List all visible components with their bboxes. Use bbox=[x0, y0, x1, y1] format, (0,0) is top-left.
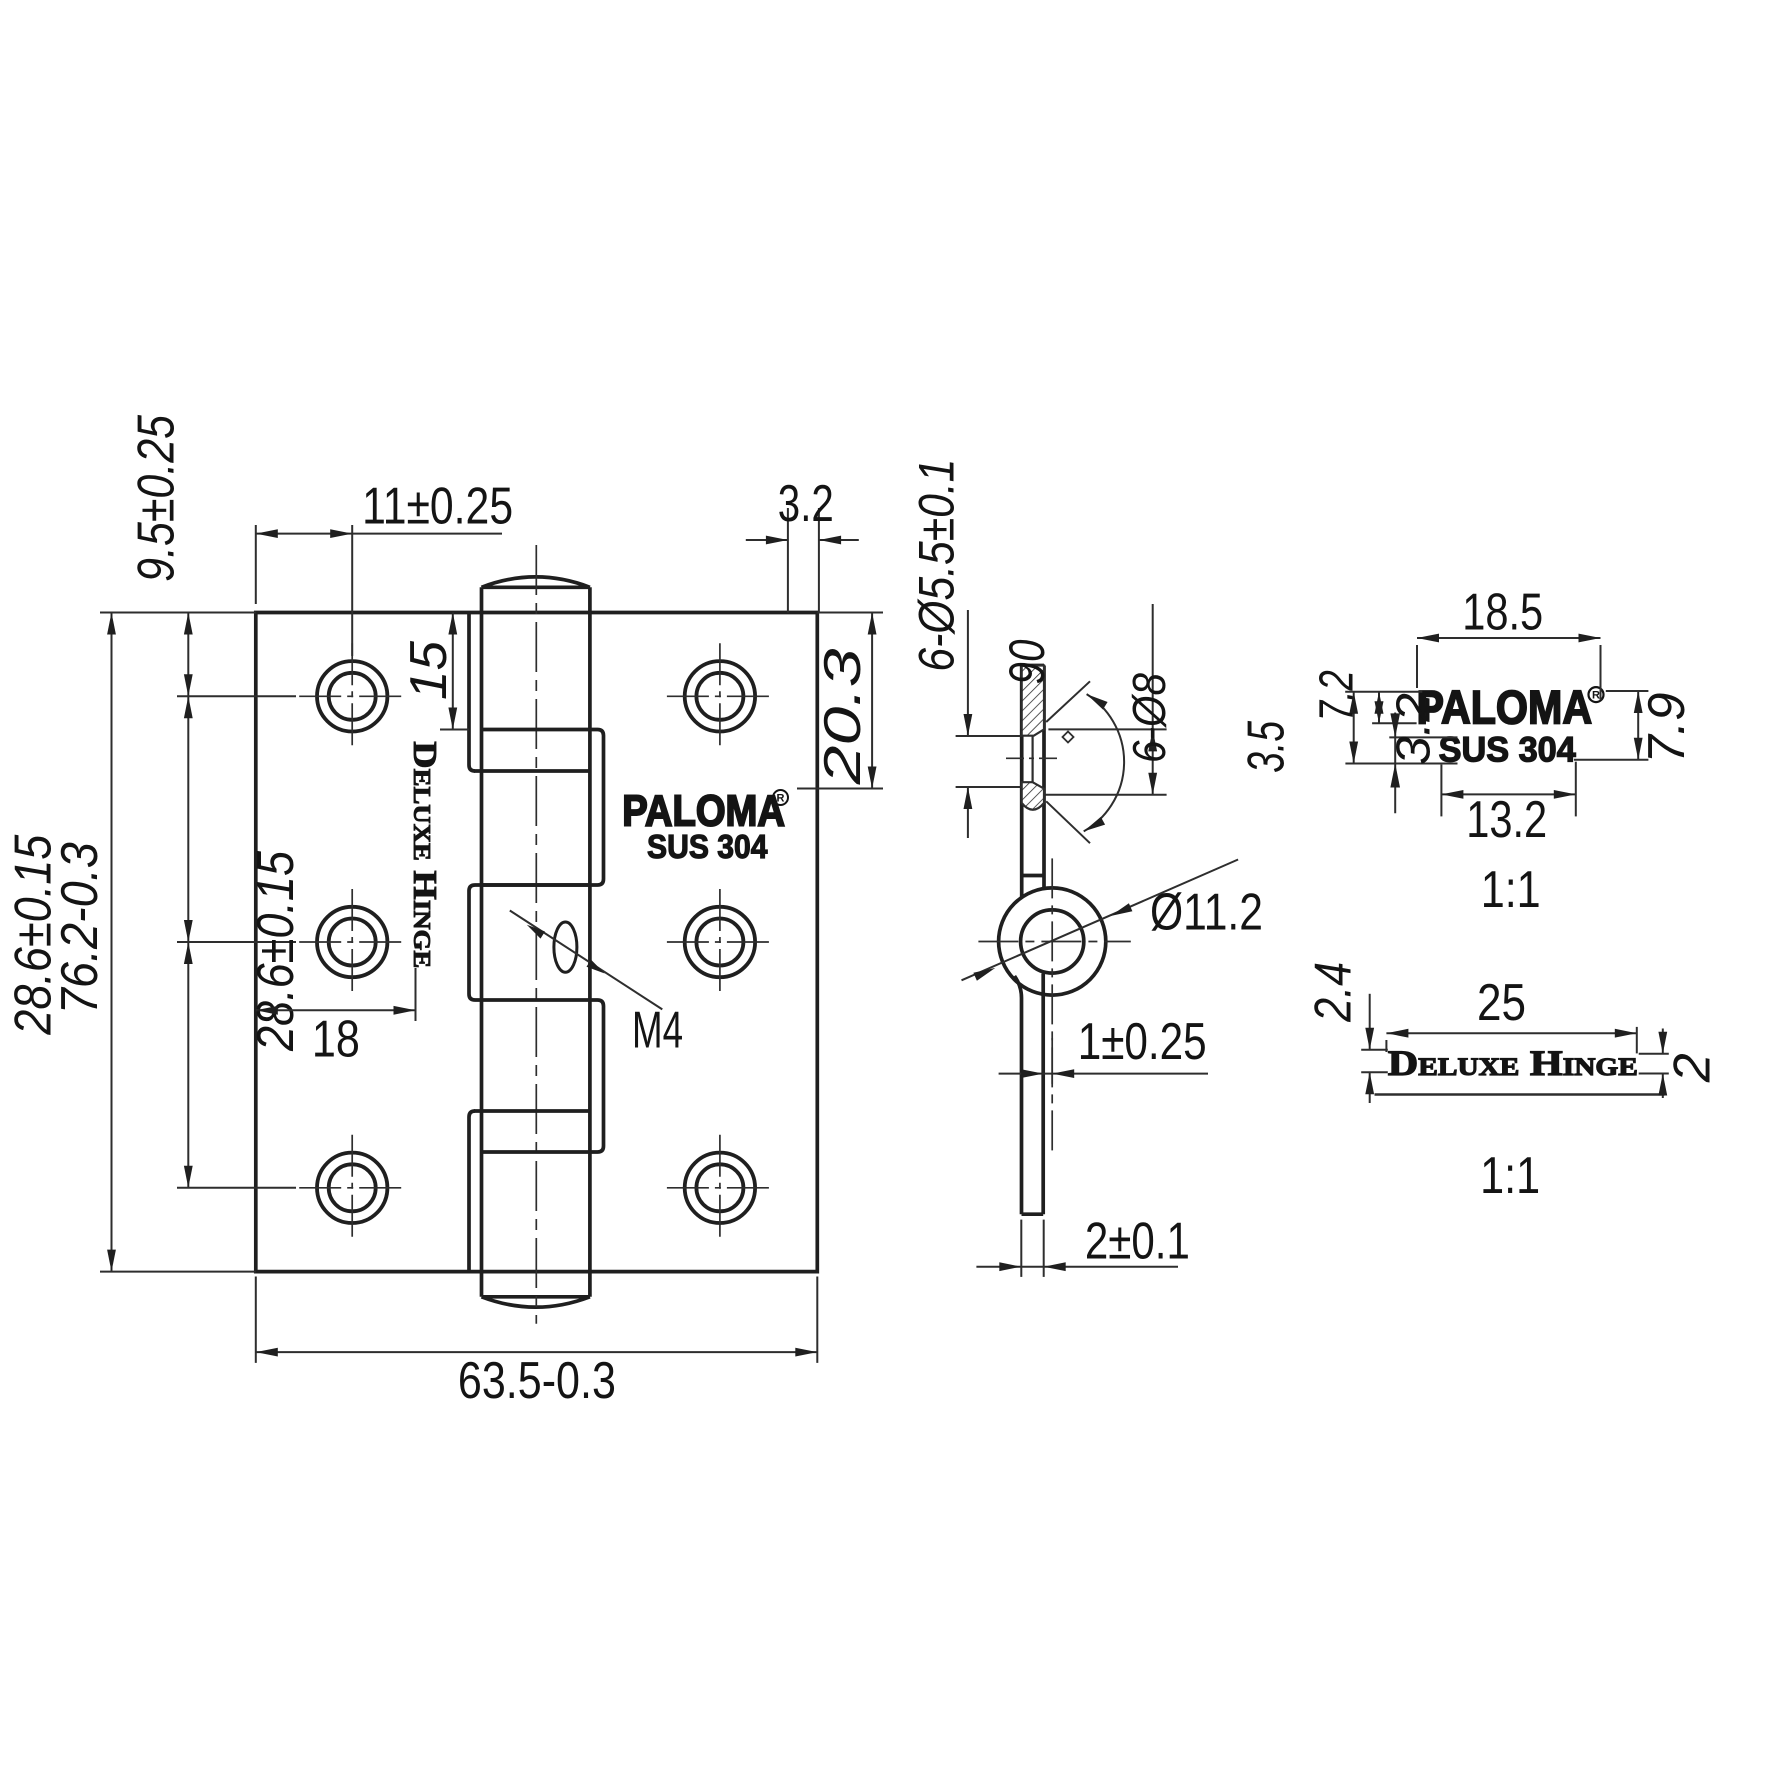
left leaf edge upper segment bbox=[469, 613, 475, 772]
stacked dimension line 9.5 / 28.6 / 28.6 bbox=[184, 613, 193, 1188]
label 7.9 (rotated) bbox=[1638, 693, 1696, 764]
dimension 6-Ø5.5±0.1 line bbox=[964, 610, 973, 838]
left leaf edge lower segment bbox=[469, 1111, 475, 1272]
front leaf SUS 304 stamp bbox=[647, 828, 768, 865]
detail PALOMA logo bbox=[1417, 680, 1604, 733]
svg-text:1:1: 1:1 bbox=[1480, 1147, 1540, 1205]
svg-text:18: 18 bbox=[312, 1011, 360, 1069]
extension lines leaf thickness bbox=[1021, 1220, 1043, 1277]
extension lines hole diameter bbox=[956, 736, 1022, 787]
label 2±0.1 bbox=[1085, 1212, 1190, 1270]
svg-text:Deluxe Hinge: Deluxe Hinge bbox=[1388, 1043, 1638, 1083]
label 6-Ø5.5±0.1 (rotated) bbox=[908, 459, 964, 672]
scale label 1:1 lower bbox=[1480, 1147, 1540, 1205]
knuckle pin inner circle bbox=[1021, 910, 1084, 973]
svg-text:9.5±0.25: 9.5±0.25 bbox=[128, 414, 186, 582]
svg-text:63.5-0.3: 63.5-0.3 bbox=[458, 1352, 616, 1410]
svg-text:2±0.1: 2±0.1 bbox=[1085, 1212, 1190, 1270]
countersink cone line upper bbox=[1046, 681, 1090, 722]
extension lines for 63.5 bbox=[256, 1277, 818, 1363]
dimension 13.2 line bbox=[1441, 790, 1575, 799]
detail DELUXE HINGE stamp bbox=[1388, 1043, 1638, 1083]
svg-text:1±0.25: 1±0.25 bbox=[1078, 1013, 1207, 1071]
extension line hole row 2 bbox=[177, 941, 296, 943]
label 28.6±0.15 left (rotated) bbox=[4, 834, 62, 1036]
extension line at joint y=729.5 bbox=[440, 729, 469, 731]
svg-text:3.2: 3.2 bbox=[778, 475, 834, 533]
extension lines for 7.9 bbox=[1574, 691, 1649, 760]
label 63.5-0.3 bbox=[458, 1352, 616, 1410]
side view lower leaf strip bbox=[1015, 974, 1044, 1215]
svg-text:R: R bbox=[1592, 690, 1600, 702]
90 degree angle arc with arrows bbox=[1084, 694, 1124, 831]
joint line y=1111 across barrel bbox=[474, 1109, 590, 1113]
extension line logo bottom bbox=[1372, 722, 1417, 724]
label M4 bbox=[632, 1002, 683, 1060]
hinge pin barrel left and right edges bbox=[482, 587, 590, 1297]
extension line for 18 bbox=[415, 968, 417, 1021]
section hatch upper block bbox=[1022, 666, 1044, 736]
front leaf PALOMA logo bbox=[622, 787, 788, 836]
extension line hole row 1 bbox=[177, 695, 296, 697]
extension lines for 2.4 bbox=[1361, 1050, 1388, 1073]
extension lines countersink diameter bbox=[1046, 729, 1167, 794]
dimension 18 line bbox=[256, 1006, 416, 1015]
dimension 6-Ø8 line bbox=[1148, 604, 1157, 795]
svg-text:1:1: 1:1 bbox=[1481, 861, 1541, 919]
label 76.2-0.3 (rotated) bbox=[51, 842, 109, 1014]
svg-text:7.2: 7.2 bbox=[1311, 670, 1364, 721]
label 9.5±0.25 (rotated) bbox=[128, 414, 186, 582]
label 28.6±0.15 inner (rotated) bbox=[247, 850, 305, 1052]
svg-text:SUS 304: SUS 304 bbox=[647, 828, 768, 865]
extension lines for 2 bbox=[1639, 1054, 1669, 1074]
knuckle diameter leader Ø11.2 bbox=[962, 860, 1239, 981]
right knuckle bracket lower bbox=[590, 1000, 604, 1152]
label 18 bbox=[312, 1011, 360, 1069]
extension lines for 25 bbox=[1386, 1027, 1636, 1054]
countersink cone line lower bbox=[1046, 801, 1090, 843]
pin top cap bbox=[482, 577, 590, 587]
label 3.5 (rotated) bbox=[1237, 720, 1295, 773]
label 6-Ø8 (rotated) bbox=[1123, 673, 1175, 763]
svg-text:13.2: 13.2 bbox=[1466, 791, 1547, 849]
svg-text:15: 15 bbox=[400, 640, 458, 700]
dimension 3.2 arrows bbox=[746, 536, 859, 545]
svg-text:2.4: 2.4 bbox=[1304, 962, 1362, 1023]
label 7.2 (rotated) bbox=[1311, 670, 1364, 721]
label 20.3 (rotated) bbox=[814, 648, 872, 785]
dimension 76.2-0.3 line bbox=[107, 613, 116, 1272]
side view upper leaf strip bbox=[1022, 666, 1044, 899]
extension lines for 18.5 bbox=[1417, 645, 1601, 700]
label 2.4 (rotated) bbox=[1304, 962, 1362, 1023]
knuckle outer circle bbox=[999, 888, 1106, 995]
extension lines for 3.2 bbox=[788, 508, 819, 613]
dimension 1±0.25 line bbox=[999, 1069, 1208, 1078]
knuckle vertical center line bbox=[1051, 858, 1053, 1157]
svg-text:7.9: 7.9 bbox=[1638, 693, 1696, 764]
dimension 20.3 line bbox=[868, 613, 877, 789]
screw hole 4 with countersink circles and center cross bbox=[667, 643, 773, 749]
label 2 (rotated) bbox=[1663, 1053, 1721, 1083]
svg-text:Deluxe Hinge: Deluxe Hinge bbox=[406, 741, 443, 968]
svg-text:Ø11.2: Ø11.2 bbox=[1150, 884, 1263, 942]
stamp underline bbox=[1375, 1093, 1665, 1096]
left knuckle bracket middle bbox=[469, 885, 482, 1000]
svg-text:20.3: 20.3 bbox=[814, 648, 872, 785]
svg-text:6-Ø8: 6-Ø8 bbox=[1123, 673, 1175, 763]
knuckle horizontal center line bbox=[978, 941, 1130, 943]
screw hole 1 with countersink circles and center cross bbox=[299, 643, 405, 749]
small diamond marker bbox=[1063, 732, 1074, 743]
extension line at knuckle center bbox=[1051, 1038, 1053, 1084]
label 18.5 bbox=[1462, 583, 1543, 641]
dimension 7.2 line bbox=[1349, 692, 1358, 764]
label 15 (rotated) bbox=[400, 640, 458, 700]
extension line plate bottom-left bbox=[100, 1271, 256, 1273]
extension lines for 13.2 bbox=[1441, 762, 1575, 817]
label 3.2 (rotated) bbox=[1388, 693, 1441, 765]
section hatch lower block bbox=[1022, 782, 1044, 810]
extension line hole row 3 bbox=[177, 1187, 296, 1189]
svg-text:R: R bbox=[777, 793, 785, 805]
extension line SUS top bbox=[1389, 736, 1457, 738]
extension line plate top-left bbox=[100, 612, 256, 614]
left leaf Deluxe Hinge stamp (rotated) bbox=[406, 741, 443, 968]
svg-text:18.5: 18.5 bbox=[1462, 583, 1543, 641]
label Ø11.2 bbox=[1150, 884, 1263, 942]
svg-text:90: 90 bbox=[999, 639, 1055, 684]
dimension 15 line bbox=[448, 613, 457, 730]
svg-text:2: 2 bbox=[1663, 1053, 1721, 1083]
extension line at logo top level bbox=[797, 788, 883, 790]
detail SUS 304 stamp bbox=[1439, 730, 1577, 769]
dimension 2 line bbox=[1658, 1029, 1667, 1099]
extension line logo top bbox=[1345, 691, 1422, 693]
svg-text:PALOMA: PALOMA bbox=[1417, 680, 1593, 733]
pin bottom cap bbox=[482, 1297, 590, 1307]
label 3.2 top bbox=[778, 475, 834, 533]
dimension 2.4 line bbox=[1365, 994, 1374, 1103]
svg-text:3.2: 3.2 bbox=[1388, 693, 1441, 765]
dimension 63.5-0.3 line bbox=[256, 1348, 818, 1357]
extension line plate top-right bbox=[817, 612, 883, 614]
svg-text:76.2-0.3: 76.2-0.3 bbox=[51, 842, 109, 1014]
label 25 bbox=[1477, 974, 1526, 1032]
dimension 18.5 line bbox=[1417, 634, 1601, 643]
dimension 2±0.1 line bbox=[976, 1262, 1178, 1271]
screw hole 5 with countersink circles and center cross bbox=[667, 889, 773, 995]
svg-text:3.5: 3.5 bbox=[1237, 720, 1295, 773]
joint line y=1000 across barrel bbox=[482, 998, 590, 1002]
barrel vertical center line bbox=[535, 545, 537, 1324]
label 1±0.25 bbox=[1078, 1013, 1207, 1071]
dimension 11±0.25 line bbox=[256, 529, 502, 538]
bearing joint line y=771 bbox=[474, 769, 590, 773]
dimension 7.9 line bbox=[1634, 691, 1643, 760]
label 11±0.25 bbox=[362, 477, 513, 535]
svg-text:6-Ø5.5±0.1: 6-Ø5.5±0.1 bbox=[908, 459, 964, 672]
screw hole 6 with countersink circles and center cross bbox=[667, 1135, 773, 1241]
svg-text:25: 25 bbox=[1477, 974, 1526, 1032]
hole center line horizontal bbox=[1006, 757, 1061, 759]
right knuckle bracket upper (joint lines y=729.5 and y=885) bbox=[482, 730, 604, 886]
label 90 (rotated) bbox=[999, 639, 1055, 684]
svg-text:SUS 304: SUS 304 bbox=[1439, 730, 1577, 769]
M4 leader line with arrows bbox=[510, 911, 663, 1010]
svg-text:28.6±0.15: 28.6±0.15 bbox=[247, 850, 305, 1052]
screw hole 2 with countersink circles and center cross bbox=[299, 889, 405, 995]
extension line at hole column 1 bbox=[351, 525, 353, 656]
joint line y=885 across barrel bbox=[482, 883, 590, 887]
extension line SUS bottom bbox=[1345, 763, 1457, 765]
hinge front view: leaf plate outline bbox=[256, 613, 818, 1272]
label 13.2 bbox=[1466, 791, 1547, 849]
svg-text:M4: M4 bbox=[632, 1002, 683, 1060]
scale label 1:1 upper bbox=[1481, 861, 1541, 919]
dimension 3.2 upper line bbox=[1375, 692, 1384, 724]
screw hole 3 with countersink circles and center cross bbox=[299, 1135, 405, 1241]
countersunk hole wall bbox=[1031, 736, 1033, 783]
M4 grub screw ellipse on middle knuckle bbox=[554, 922, 577, 972]
svg-text:11±0.25: 11±0.25 bbox=[362, 477, 513, 535]
dimension 3.2 lower line bbox=[1390, 713, 1400, 814]
joint line y=1152 across barrel bbox=[482, 1150, 590, 1154]
dimension 25 line bbox=[1386, 1029, 1636, 1038]
extension line at plate left top bbox=[255, 525, 257, 604]
